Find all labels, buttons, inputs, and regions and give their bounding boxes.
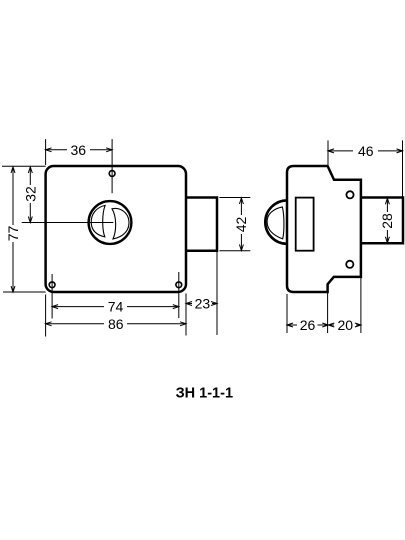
bottom-left extension line xyxy=(3,291,46,293)
svg-text:74: 74 xyxy=(108,299,124,315)
dimension 77 xyxy=(11,167,15,292)
bolt front view xyxy=(186,198,217,251)
slot rectangle side view xyxy=(296,198,314,251)
side top screw hole xyxy=(346,191,353,198)
dimension 28 xyxy=(385,198,389,243)
svg-text:20: 20 xyxy=(338,317,354,333)
dimension 20 xyxy=(328,278,361,333)
dimension 36 xyxy=(46,139,113,193)
dimension 32 xyxy=(28,167,32,223)
svg-text:36: 36 xyxy=(71,142,87,158)
top-left extension line xyxy=(2,165,46,167)
knob wing side view xyxy=(267,207,284,239)
dimension 46 xyxy=(328,140,403,196)
dimension 23 xyxy=(186,251,217,335)
svg-text:77: 77 xyxy=(5,226,21,242)
dimension 42 xyxy=(219,198,250,251)
svg-text:28: 28 xyxy=(379,213,395,229)
lock case front view xyxy=(46,166,186,292)
knob right wing xyxy=(112,208,129,238)
svg-text:46: 46 xyxy=(358,143,374,159)
dimension 26 xyxy=(287,293,328,333)
dimension 74 xyxy=(52,272,179,319)
svg-text:32: 32 xyxy=(22,186,38,202)
side bottom screw hole xyxy=(346,261,353,268)
knob left wing xyxy=(91,205,105,237)
svg-text:26: 26 xyxy=(300,317,316,333)
svg-text:ЗН 1-1-1: ЗН 1-1-1 xyxy=(176,385,233,401)
top screw hole xyxy=(109,171,115,177)
bottom-right screw hole xyxy=(176,282,182,288)
bottom-left screw hole xyxy=(49,282,55,288)
svg-text:42: 42 xyxy=(233,217,249,233)
svg-text:23: 23 xyxy=(195,296,211,312)
knob center line xyxy=(22,222,114,224)
knob outer circle xyxy=(89,201,132,244)
bolt side view xyxy=(361,198,403,244)
lock case side view xyxy=(287,166,361,292)
svg-text:86: 86 xyxy=(108,316,124,332)
dimension 86 xyxy=(46,294,186,337)
knob dome side view xyxy=(265,200,287,243)
